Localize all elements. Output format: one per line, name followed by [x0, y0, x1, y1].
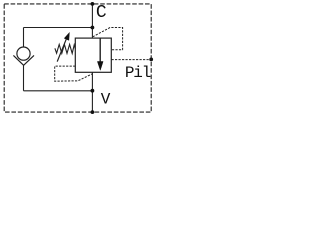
junction dot C top border	[91, 2, 95, 6]
junction dot V bottom border	[91, 110, 95, 114]
wire V port vertical	[91, 72, 93, 112]
svg-text:V: V	[101, 91, 111, 109]
enclosure dashed border	[4, 4, 151, 112]
wire check valve bottom	[23, 65, 25, 91]
spring adjust arrow shaft	[57, 37, 67, 61]
check valve CV1 seat	[13, 55, 34, 65]
relief valve V1 flow arrow shaft	[99, 38, 101, 62]
spring adjust arrow head	[64, 33, 69, 40]
spring S1	[55, 44, 75, 53]
wire check valve top	[23, 28, 25, 48]
svg-text:C: C	[96, 2, 107, 23]
relief valve V1 flow arrow head	[97, 62, 103, 71]
junction dot C branch	[91, 26, 95, 30]
pilot dashed line Pil	[112, 59, 152, 61]
pilot dashed loop top-right	[93, 28, 123, 50]
relief valve V1 body square	[75, 38, 111, 72]
pilot dashed drain loop left	[55, 66, 93, 81]
check valve CV1 circle	[17, 47, 30, 60]
wire C branch horizontal	[24, 27, 93, 29]
junction dot Pil right border	[149, 58, 153, 62]
junction dot V return	[91, 89, 95, 93]
wire C port vertical	[91, 4, 93, 38]
svg-text:Pil: Pil	[125, 64, 151, 82]
wire return horizontal	[24, 90, 93, 92]
